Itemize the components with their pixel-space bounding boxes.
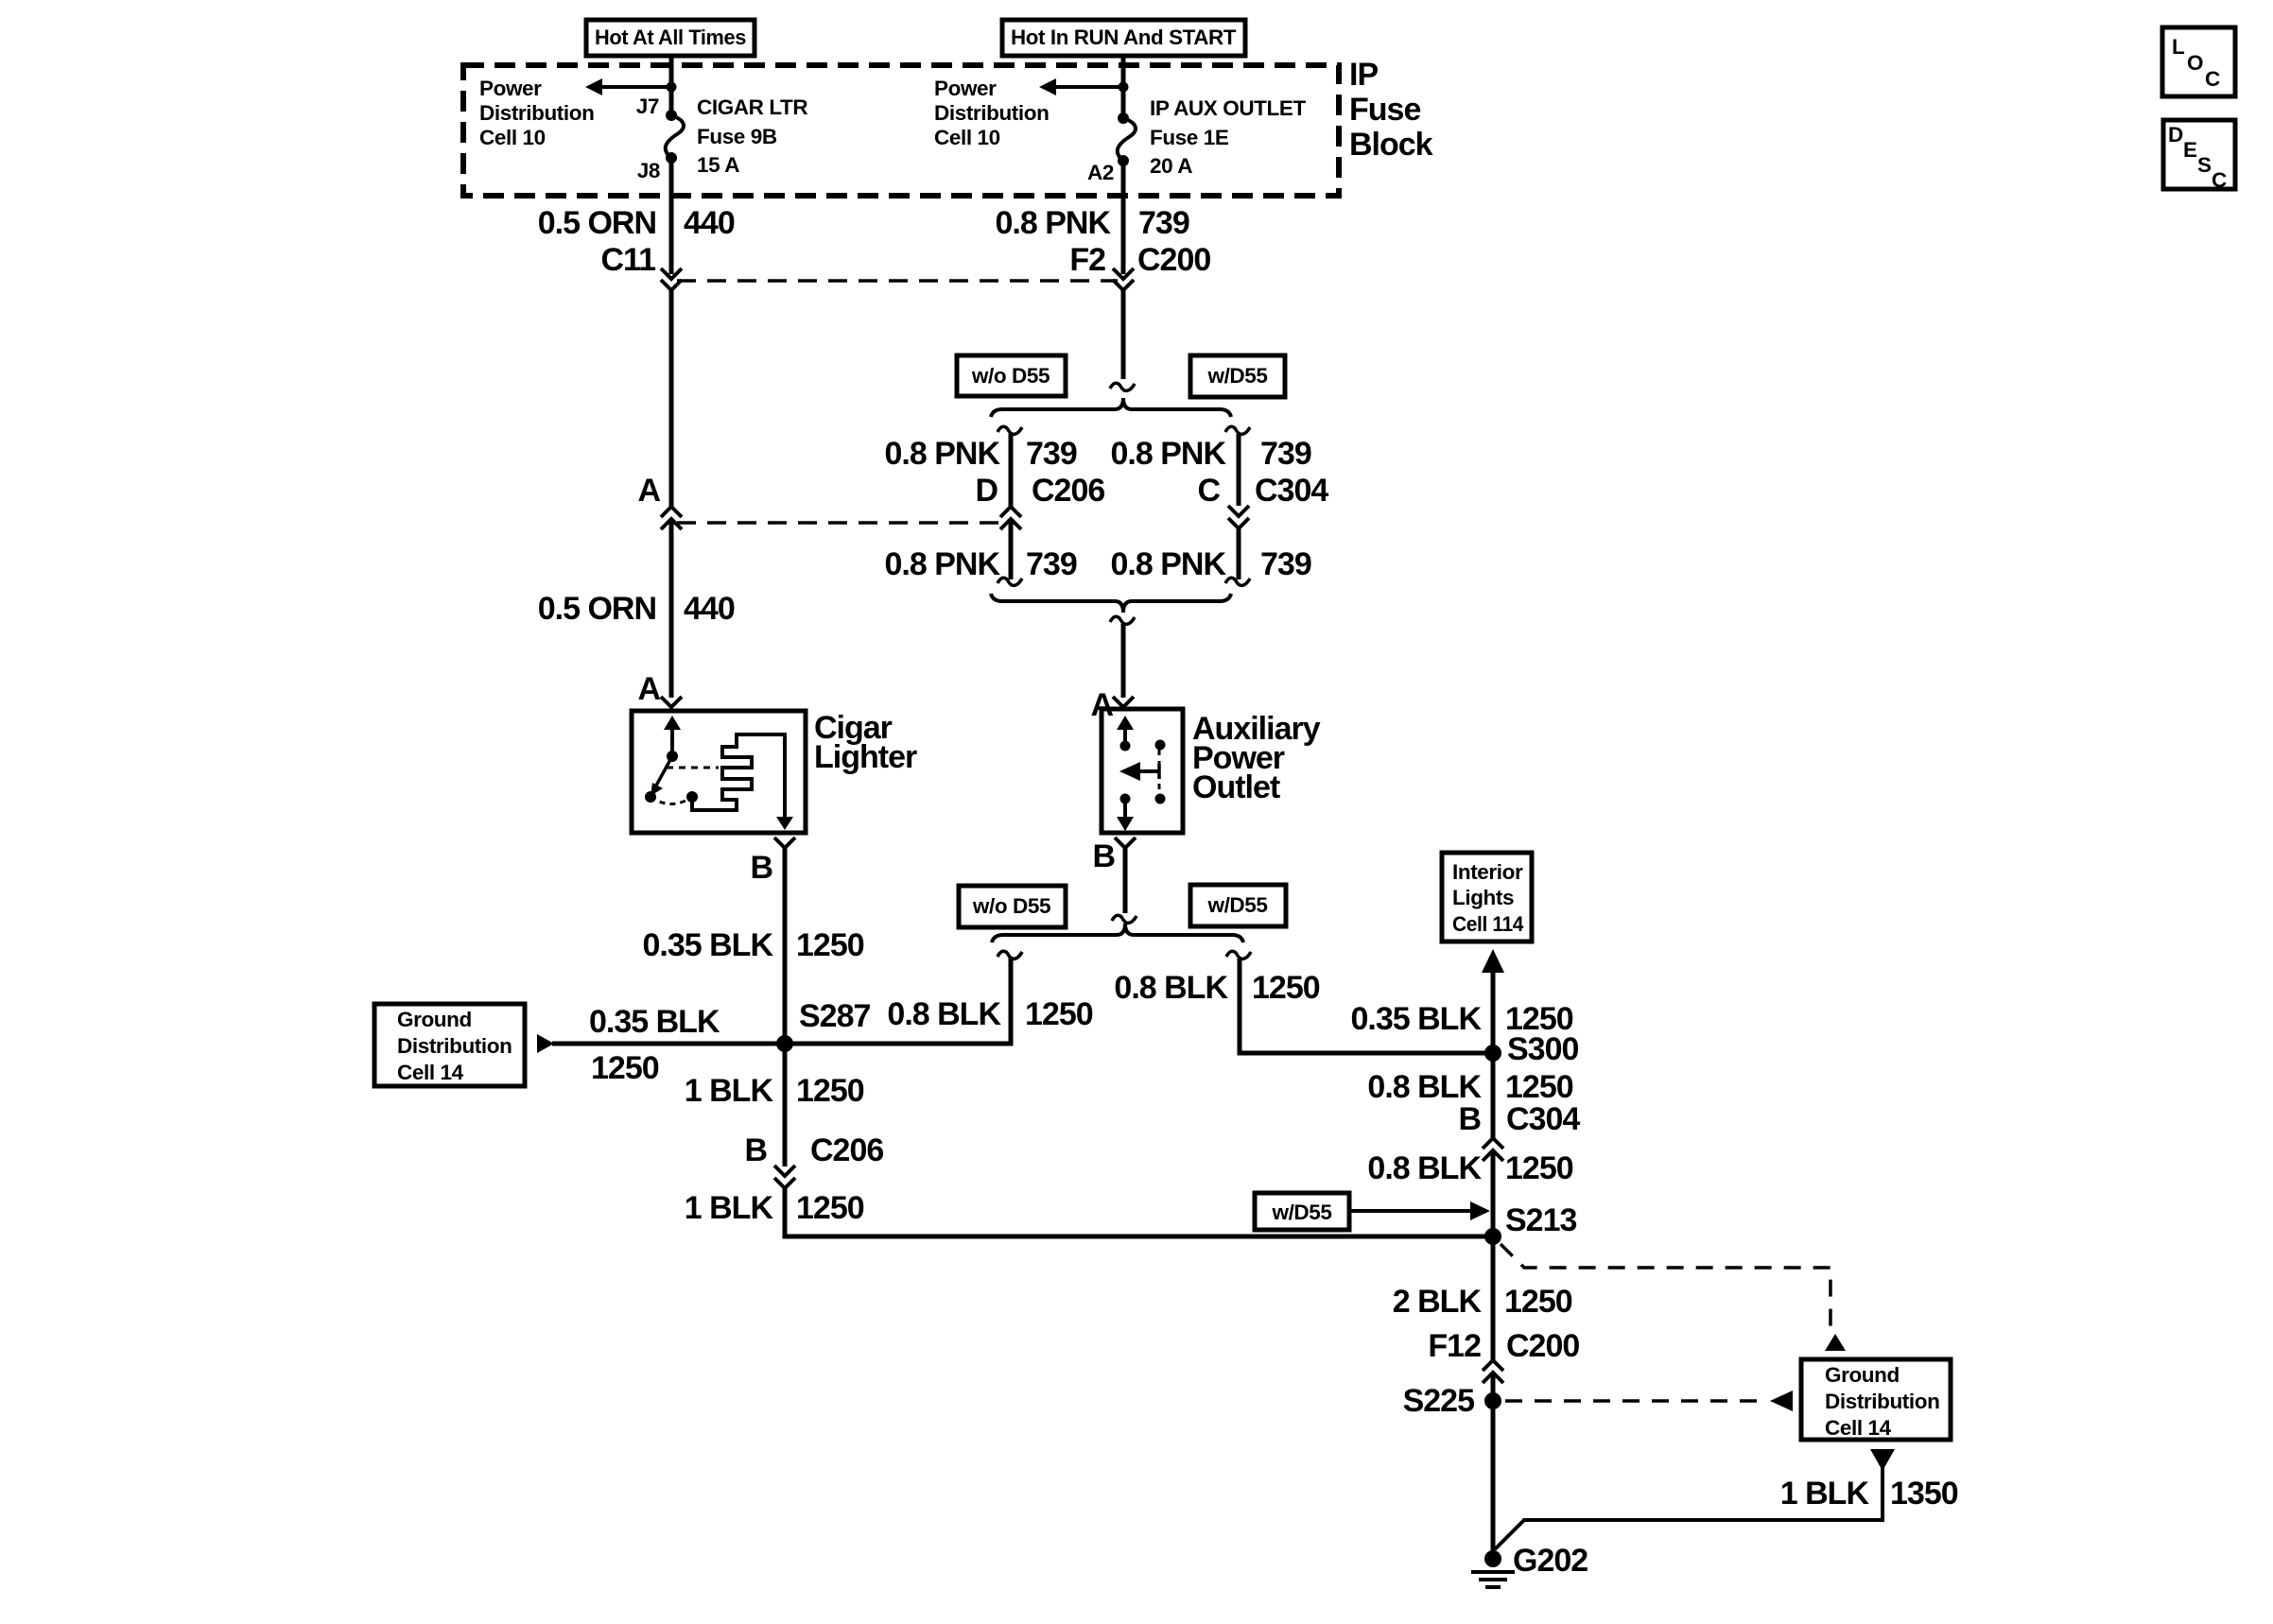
fuse IP AUX OUTLET Fuse 1E 20A xyxy=(1118,112,1136,166)
svg-text:Hot In RUN And START: Hot In RUN And START xyxy=(1011,26,1237,49)
cigar lighter internal terminal arrow (up) xyxy=(664,716,681,756)
wire: 0.8 BLK branch to S300 xyxy=(1240,959,1493,1053)
arrow to Power Distribution (right) xyxy=(1039,78,1121,95)
svg-text:Distribution: Distribution xyxy=(1825,1390,1939,1413)
svg-text:0.8 PNK: 0.8 PNK xyxy=(996,205,1112,241)
wire end squiggle (left branch to S287) xyxy=(998,951,1022,959)
wire end squiggle (right branch bottom) xyxy=(1225,578,1250,585)
connector C200 chevrons xyxy=(1113,268,1134,290)
connector C11 chevrons xyxy=(661,268,682,290)
svg-text:Hot At All Times: Hot At All Times xyxy=(595,26,746,49)
svg-text:0.8 PNK: 0.8 PNK xyxy=(885,436,1001,472)
cigar lighter contact dot (right) xyxy=(686,791,698,803)
connector C200 chevrons (up) xyxy=(1483,1360,1503,1383)
wire: 1 BLK run from C206 to S213 xyxy=(785,1188,1493,1236)
label box: Ground Distribution Cell 14 (left) xyxy=(374,1004,525,1086)
option arrow into S213 xyxy=(1349,1201,1490,1220)
arrow: 0.35 BLK up to interior lights xyxy=(1482,949,1504,1053)
svg-text:C: C xyxy=(2205,67,2220,91)
svg-text:739: 739 xyxy=(1026,546,1077,582)
node A2 feed junction dot xyxy=(1119,82,1129,93)
wire: 0.5 ORN 440 run down to cigar lighter xyxy=(669,519,674,698)
connector C11 label xyxy=(601,242,656,278)
svg-text:S: S xyxy=(2197,153,2212,177)
connector F12 C200 labels xyxy=(1428,1328,1579,1364)
svg-text:Distribution: Distribution xyxy=(397,1034,512,1058)
svg-text:Power: Power xyxy=(934,77,997,100)
svg-text:O: O xyxy=(2187,51,2203,75)
wire label 0.35 BLK 1250 xyxy=(643,927,864,963)
text: Power Distribution Cell 10 (right) xyxy=(934,77,1049,149)
svg-text:Distribution: Distribution xyxy=(934,101,1049,125)
splice S287 xyxy=(776,998,870,1052)
off-page arrow to Ground Distribution xyxy=(537,1034,554,1053)
option box: w/D55 (top) xyxy=(1190,355,1285,397)
wire label 0.8 PNK 739 (right branch upper) xyxy=(1111,436,1311,472)
svg-text:0.5 ORN: 0.5 ORN xyxy=(538,591,656,627)
svg-text:1 BLK: 1 BLK xyxy=(1780,1476,1870,1512)
option split brace (top) xyxy=(991,398,1231,417)
wire: 0.8 PNK below C206 xyxy=(1009,519,1014,579)
splice S300 xyxy=(1484,1031,1578,1067)
svg-text:E: E xyxy=(2183,138,2197,162)
svg-text:Lights: Lights xyxy=(1452,886,1514,909)
IP Fuse Block name xyxy=(1349,57,1433,163)
svg-text:Power: Power xyxy=(479,77,542,100)
svg-text:Fuse 9B: Fuse 9B xyxy=(697,125,777,148)
svg-text:1250: 1250 xyxy=(796,927,864,963)
svg-text:2 BLK: 2 BLK xyxy=(1393,1284,1483,1320)
auxiliary power outlet component box xyxy=(1102,709,1183,833)
svg-text:S213: S213 xyxy=(1505,1202,1576,1238)
option box: w/o D55 (lower) xyxy=(959,886,1066,927)
svg-text:0.8 BLK: 0.8 BLK xyxy=(1367,1069,1482,1105)
svg-text:S300: S300 xyxy=(1507,1031,1578,1067)
connector C C304 labels xyxy=(1197,473,1328,509)
svg-text:L: L xyxy=(2172,35,2185,59)
svg-text:0.5 ORN: 0.5 ORN xyxy=(538,205,656,241)
svg-text:J8: J8 xyxy=(637,159,660,182)
DESC reference box xyxy=(2163,120,2235,192)
wire label 0.8 BLK 1250 (above S213) xyxy=(1367,1150,1572,1186)
label box: Hot At All Times xyxy=(586,20,755,56)
wire label 0.8 PNK 739 xyxy=(996,205,1189,241)
svg-text:F12: F12 xyxy=(1428,1328,1481,1364)
connector B C206 labels xyxy=(744,1132,883,1168)
connector C206 chevrons (up) xyxy=(1000,507,1021,529)
svg-text:440: 440 xyxy=(684,591,735,627)
svg-text:440: 440 xyxy=(684,205,735,241)
svg-text:0.35 BLK: 0.35 BLK xyxy=(1351,1001,1483,1037)
wire: 0.8 BLK from C304 to S213 xyxy=(1491,1150,1496,1236)
aux outlet internal arrow (down) xyxy=(1117,799,1134,831)
cigar lighter dashed travel arc xyxy=(651,797,692,804)
svg-text:C304: C304 xyxy=(1255,473,1328,509)
option box: w/D55 (S213 tag) xyxy=(1255,1193,1349,1230)
svg-text:739: 739 xyxy=(1138,205,1189,241)
wire: 0.8 BLK from S300 down to C304 xyxy=(1491,1053,1496,1138)
svg-text:w/D55: w/D55 xyxy=(1271,1201,1331,1224)
svg-text:0.8 PNK: 0.8 PNK xyxy=(1111,546,1227,582)
connector C206 chevrons (down) xyxy=(774,1166,795,1188)
dashed link from S225 to ground distribution xyxy=(1505,1391,1793,1411)
svg-text:1250: 1250 xyxy=(796,1073,864,1109)
svg-text:CIGAR LTR: CIGAR LTR xyxy=(697,95,807,119)
svg-text:Outlet: Outlet xyxy=(1192,769,1280,805)
aux outlet dot (right bottom) xyxy=(1155,794,1166,804)
aux outlet dot (left bottom) xyxy=(1120,794,1131,804)
off-page arrow below ground distribution xyxy=(1870,1449,1895,1471)
wire label 1 BLK 1250 xyxy=(685,1073,864,1109)
svg-text:Lighter: Lighter xyxy=(814,739,917,775)
wire: 1 BLK 1350 from ground distribution xyxy=(1495,1467,1883,1549)
svg-text:C206: C206 xyxy=(810,1132,883,1168)
svg-text:Ground: Ground xyxy=(1825,1363,1900,1387)
svg-text:1250: 1250 xyxy=(796,1190,864,1226)
svg-text:15 A: 15 A xyxy=(697,153,739,177)
splice S213 xyxy=(1484,1202,1576,1245)
svg-text:Block: Block xyxy=(1349,127,1433,163)
terminal A of cigar lighter xyxy=(637,671,682,707)
wire: 2 BLK from C200 to G202 xyxy=(1491,1373,1496,1561)
wire end squiggle above ground split xyxy=(1112,915,1136,923)
svg-text:Cell 14: Cell 14 xyxy=(397,1061,464,1084)
connector F2 C200 labels xyxy=(1069,242,1210,278)
node A (cigar lighter circuit inline connector) xyxy=(637,473,660,509)
svg-text:A2: A2 xyxy=(1087,161,1114,184)
wire start squiggle (branch to S287) xyxy=(998,951,1022,959)
aux outlet dashed center contact xyxy=(1158,750,1161,795)
svg-text:0.8 PNK: 0.8 PNK xyxy=(1111,436,1227,472)
svg-text:D: D xyxy=(975,473,998,509)
dashed option line from A to C206 xyxy=(677,521,1005,525)
terminal B of aux power outlet xyxy=(1092,838,1136,874)
svg-text:0.8 BLK: 0.8 BLK xyxy=(1367,1150,1482,1186)
svg-text:w/D55: w/D55 xyxy=(1206,893,1267,917)
dashed connector line C200 xyxy=(677,279,1118,283)
wire label 0.8 BLK 1250 (S287 branch) xyxy=(887,996,1092,1032)
svg-text:C304: C304 xyxy=(1506,1101,1580,1137)
wire: fuse A2 output down to connector C200 xyxy=(1121,161,1126,274)
splice S225 xyxy=(1403,1383,1501,1419)
connector C304 chevrons (up) xyxy=(1483,1138,1503,1161)
wire start squiggle (branch to S300) xyxy=(1226,951,1251,959)
svg-text:B: B xyxy=(1092,838,1115,874)
aux outlet internal arrow (up) xyxy=(1117,716,1134,746)
option box: w/o D55 (top) xyxy=(957,355,1066,396)
option box: w/D55 (lower) xyxy=(1190,885,1286,926)
label box: Interior Lights Cell 114 xyxy=(1442,853,1532,942)
label box: Hot In RUN And START xyxy=(1002,20,1245,56)
svg-text:B: B xyxy=(1458,1101,1481,1137)
component name: Auxiliary Power Outlet xyxy=(1192,711,1321,805)
wire: battery feed into fuse J7 xyxy=(669,56,674,115)
dashed ground-distribution link from S213 xyxy=(1501,1244,1846,1351)
svg-text:D: D xyxy=(2168,123,2183,147)
wire: 0.8 PNK below C304 xyxy=(1237,528,1241,579)
svg-text:C200: C200 xyxy=(1137,242,1210,278)
wire: 0.8 BLK from aux outlet B to option split xyxy=(1123,848,1128,913)
svg-text:S225: S225 xyxy=(1403,1383,1474,1419)
aux outlet wiper arrow (left) xyxy=(1119,762,1159,781)
wire: 0.8 BLK from S287 right and up to splice brace xyxy=(785,957,1011,1044)
svg-text:F2: F2 xyxy=(1069,242,1105,278)
svg-text:Cell 14: Cell 14 xyxy=(1825,1416,1892,1440)
wire label 0.35 BLK 1250 (to interior lights) xyxy=(1351,1001,1573,1037)
LOC reference box xyxy=(2162,27,2235,96)
wire: fuse J8 output down to connector C11 xyxy=(669,158,674,274)
svg-text:G202: G202 xyxy=(1513,1543,1588,1579)
svg-text:Fuse: Fuse xyxy=(1349,92,1420,128)
svg-text:w/D55: w/D55 xyxy=(1206,364,1267,388)
svg-text:Fuse 1E: Fuse 1E xyxy=(1150,126,1229,149)
svg-text:w/o D55: w/o D55 xyxy=(972,894,1050,918)
wire label 0.8 BLK 1250 (below S300) xyxy=(1367,1069,1572,1105)
svg-text:739: 739 xyxy=(1260,546,1311,582)
svg-text:Cell 10: Cell 10 xyxy=(934,126,1000,149)
svg-text:Interior: Interior xyxy=(1452,860,1523,884)
svg-text:A: A xyxy=(637,671,660,707)
terminal A of aux power outlet xyxy=(1090,687,1134,723)
wire label 0.5 ORN 440 (second) xyxy=(538,591,735,627)
svg-text:0.8 BLK: 0.8 BLK xyxy=(1114,970,1228,1006)
svg-text:IP: IP xyxy=(1349,57,1378,93)
wire label 0.5 ORN 440 xyxy=(538,205,735,241)
wire: 0.5 ORN 440 run from C11 to connector A xyxy=(669,290,674,507)
wire start squiggle below merge xyxy=(1110,616,1135,624)
wire label 0.8 PNK 739 (right branch lower) xyxy=(1111,546,1311,582)
svg-text:0.8 BLK: 0.8 BLK xyxy=(887,996,1001,1032)
connector D C206 labels xyxy=(975,473,1104,509)
svg-text:1250: 1250 xyxy=(591,1050,659,1086)
svg-text:C: C xyxy=(1197,473,1220,509)
svg-text:A: A xyxy=(637,473,660,509)
cigar lighter C68 component box xyxy=(632,711,806,833)
fuse value: CIGAR LTR / Fuse 9B / 15 A xyxy=(697,95,807,177)
connector C304 chevrons (down) xyxy=(1228,506,1249,528)
cigar lighter dashed link to element xyxy=(667,767,719,769)
wire label 1 BLK 1250 (below C206) xyxy=(685,1190,864,1226)
wire branch w/o D55 start squiggle xyxy=(998,426,1022,434)
wire: 0.8 PNK branch to C304 xyxy=(1237,434,1241,506)
svg-text:C: C xyxy=(2212,168,2227,192)
wire: 0.8 PNK branch to C206 xyxy=(1009,434,1014,508)
wire: right feed into fuse block xyxy=(1121,56,1126,118)
svg-text:S287: S287 xyxy=(799,998,870,1034)
svg-text:1250: 1250 xyxy=(1505,1069,1573,1105)
svg-text:0.8 PNK: 0.8 PNK xyxy=(885,546,1001,582)
svg-text:C11: C11 xyxy=(601,242,656,278)
svg-text:1 BLK: 1 BLK xyxy=(685,1073,774,1109)
wire label 0.8 BLK 1250 (S300 branch) xyxy=(1114,970,1319,1006)
svg-text:0.35 BLK: 0.35 BLK xyxy=(643,927,774,963)
cigar lighter switch arm arrow xyxy=(651,756,672,796)
wire: 0.8 PNK from C200 to option split xyxy=(1121,290,1126,379)
pin label J8 xyxy=(637,159,660,182)
option merge brace (bottom) xyxy=(991,594,1231,613)
ground option split brace xyxy=(992,924,1243,942)
wire end squiggle (left branch bottom) xyxy=(998,578,1022,585)
fuse CIGAR LTR Fuse 9B 15A xyxy=(666,110,684,164)
wire end squiggle above split xyxy=(1110,383,1135,390)
aux outlet dot (left top) xyxy=(1120,741,1131,752)
svg-text:w/o D55: w/o D55 xyxy=(971,364,1050,388)
node J7 junction dot xyxy=(667,82,677,93)
cigar lighter pivot dot xyxy=(667,751,678,762)
text: Power Distribution Cell 10 (left) xyxy=(479,77,594,149)
svg-text:C200: C200 xyxy=(1506,1328,1579,1364)
svg-text:739: 739 xyxy=(1260,436,1311,472)
wire: 0.35 BLK from cigar lighter B to S287 xyxy=(783,848,788,1044)
svg-text:Ground: Ground xyxy=(397,1008,472,1031)
svg-text:1 BLK: 1 BLK xyxy=(685,1190,774,1226)
pin label J7 xyxy=(636,95,659,118)
component name: Cigar Lighter xyxy=(814,710,917,775)
wire: 0.35 BLK 1250 to ground distribution xyxy=(552,1042,785,1046)
connector A chevrons (up) xyxy=(661,507,682,529)
wire label 0.35 BLK / 1250 (horizontal run) xyxy=(589,1004,720,1086)
arrow to Power Distribution (left) xyxy=(585,78,669,95)
svg-text:Cell 114: Cell 114 xyxy=(1452,912,1524,936)
svg-text:B: B xyxy=(744,1132,767,1168)
ground G202 xyxy=(1471,1543,1588,1587)
svg-text:J7: J7 xyxy=(636,95,659,118)
wire branch w/D55 start squiggle xyxy=(1225,426,1250,434)
aux outlet dot (right top) xyxy=(1155,740,1166,751)
connector B C304 labels xyxy=(1458,1101,1580,1137)
svg-text:IP AUX OUTLET: IP AUX OUTLET xyxy=(1150,96,1306,120)
wire: 1 BLK from S287 down to C206 xyxy=(783,1044,788,1166)
svg-text:0.35 BLK: 0.35 BLK xyxy=(589,1004,720,1040)
wire: 2 BLK from S213 to C200 xyxy=(1491,1236,1496,1360)
svg-text:Distribution: Distribution xyxy=(479,101,594,125)
svg-text:1250: 1250 xyxy=(1505,1150,1573,1186)
label box: Ground Distribution Cell 14 (right) xyxy=(1801,1359,1951,1440)
cigar lighter heating element xyxy=(692,734,793,830)
svg-text:20 A: 20 A xyxy=(1150,154,1192,178)
terminal B of cigar lighter xyxy=(750,838,795,886)
svg-text:739: 739 xyxy=(1026,436,1077,472)
wire label 1 BLK 1350 xyxy=(1780,1476,1958,1512)
svg-text:1250: 1250 xyxy=(1025,996,1093,1032)
svg-text:1250: 1250 xyxy=(1252,970,1320,1006)
svg-text:1250: 1250 xyxy=(1504,1284,1572,1320)
cigar lighter contact dot (left) xyxy=(645,791,656,803)
svg-text:1350: 1350 xyxy=(1890,1476,1958,1512)
wire: 0.8 PNK to aux power outlet xyxy=(1121,624,1126,698)
fuse value: IP AUX OUTLET / Fuse 1E / 20 A xyxy=(1150,96,1306,178)
svg-text:B: B xyxy=(750,850,772,886)
svg-text:C206: C206 xyxy=(1032,473,1104,509)
IP Fuse Block dashed boundary xyxy=(463,65,1339,196)
svg-text:Cell 10: Cell 10 xyxy=(479,126,546,149)
wire label 2 BLK 1250 xyxy=(1393,1284,1572,1320)
wire label 0.8 PNK 739 (left branch lower) xyxy=(885,546,1077,582)
pin label A2 xyxy=(1087,161,1114,184)
wire label 0.8 PNK 739 (left branch upper) xyxy=(885,436,1077,472)
